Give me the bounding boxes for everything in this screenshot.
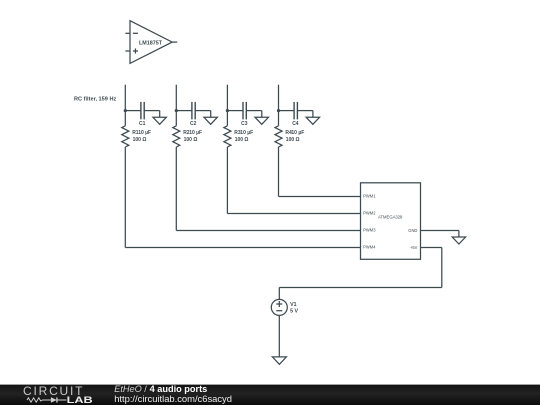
svg-text:PWM2: PWM2 xyxy=(363,211,376,216)
svg-text:C1: C1 xyxy=(139,121,146,127)
svg-text:PWM3: PWM3 xyxy=(363,228,376,233)
svg-text:R3: R3 xyxy=(234,130,241,136)
svg-text:R4: R4 xyxy=(285,130,292,136)
svg-text:PWM4: PWM4 xyxy=(363,245,376,250)
svg-text:10 µF: 10 µF xyxy=(240,130,253,136)
svg-text:LAB: LAB xyxy=(67,395,93,405)
svg-text:5 V: 5 V xyxy=(290,309,298,315)
svg-text:R2: R2 xyxy=(183,130,190,136)
svg-text:100 Ω: 100 Ω xyxy=(184,137,198,143)
svg-text:RC filter, 159 Hz: RC filter, 159 Hz xyxy=(74,97,116,103)
svg-text:R1: R1 xyxy=(132,130,139,136)
svg-text:PWM1: PWM1 xyxy=(363,194,376,199)
svg-text:10 µF: 10 µF xyxy=(189,130,202,136)
svg-text:ATMEGA328: ATMEGA328 xyxy=(378,215,403,220)
svg-text:100 Ω: 100 Ω xyxy=(235,137,249,143)
svg-text:C3: C3 xyxy=(241,121,248,127)
svg-text:V1: V1 xyxy=(290,302,297,308)
svg-text:10 µF: 10 µF xyxy=(291,130,304,136)
svg-text:100 Ω: 100 Ω xyxy=(133,137,147,143)
svg-text:C4: C4 xyxy=(292,121,299,127)
svg-text:10 µF: 10 µF xyxy=(138,130,151,136)
svg-text:LM1875T: LM1875T xyxy=(139,40,163,46)
svg-text:GND: GND xyxy=(408,228,417,233)
svg-text:C2: C2 xyxy=(190,121,197,127)
svg-text:http://circuitlab.com/c6sacyd: http://circuitlab.com/c6sacyd xyxy=(114,393,232,404)
svg-text:+5V: +5V xyxy=(410,245,418,250)
svg-text:100 Ω: 100 Ω xyxy=(286,137,300,143)
